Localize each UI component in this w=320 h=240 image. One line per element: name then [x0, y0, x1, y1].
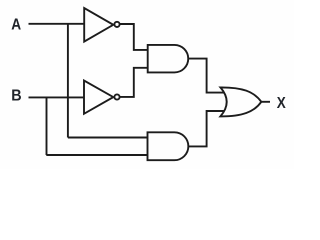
wire A branch down — [67, 24, 69, 138]
wire B branch down — [46, 97, 48, 155]
AND gate U2 (bottom) — [148, 132, 189, 160]
wire A input to NOT1 — [29, 23, 85, 25]
wire AND2 output to OR bottom input — [188, 111, 224, 146]
wire NOT2 output to AND1 bottom input — [120, 68, 149, 97]
OR gate U3 — [220, 87, 261, 116]
inverter NOT1 (input A) — [84, 8, 113, 42]
wire B branch to AND2 bottom input — [46, 154, 148, 156]
wire NOT1 output to AND1 top input — [120, 24, 149, 50]
bubble NOT1 — [114, 22, 119, 27]
bubble NOT2 — [114, 94, 119, 99]
inverter NOT2 (input B) — [84, 81, 113, 114]
svg-text:B: B — [11, 88, 21, 105]
svg-text:X: X — [277, 95, 286, 112]
wire B input to NOT2 — [29, 96, 85, 98]
wire OR output to X — [261, 101, 271, 103]
svg-text:A: A — [11, 16, 21, 33]
AND gate U1 (top) — [148, 45, 189, 73]
wire A branch to AND2 top input — [68, 137, 148, 139]
wire AND1 output to OR top input — [188, 59, 224, 93]
